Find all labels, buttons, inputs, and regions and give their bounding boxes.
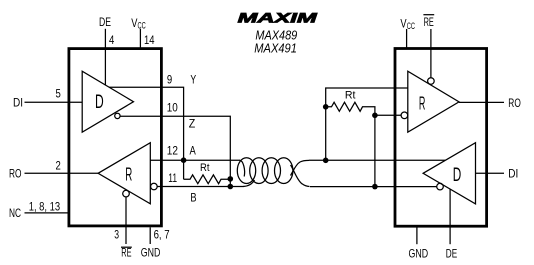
svg-text:Rt: Rt [345,90,356,102]
wire DE pin 4 [104,29,106,85]
wire GND pins 6,7 [149,227,151,244]
svg-text:RO: RO [508,96,521,110]
svg-text:6, 7: 6, 7 [154,228,170,242]
svg-text:CC: CC [407,21,416,31]
junction node A dot [181,157,187,163]
IC1 left transceiver box [69,49,161,226]
svg-text:Z: Z [189,117,196,131]
wire VCC pin 14 [139,29,141,49]
driver D2 inverting output bubble [437,183,444,190]
svg-text:5: 5 [56,86,61,100]
svg-text:DI: DI [13,95,23,109]
resistor Rt left [184,160,231,184]
svg-text:Y: Y [190,73,196,87]
resistor Rt right [326,88,408,187]
wire bottom bus right segment [310,186,437,188]
wire RE right pin [430,29,432,78]
svg-text:MAXIM: MAXIM [238,10,318,25]
wire NC pins 1,8,13 [25,212,69,214]
svg-text:CC: CC [138,20,147,30]
wire DI right input [476,172,505,174]
svg-text:1, 8, 13: 1, 8, 13 [29,199,61,213]
svg-text:R: R [419,93,426,114]
svg-text:9: 9 [167,73,172,87]
svg-text:2: 2 [56,159,61,173]
receiver R1 enable bubble [123,190,130,197]
driver D1 triangle [82,71,133,132]
svg-text:D: D [453,164,462,186]
receiver R1 triangle [98,143,150,204]
svg-text:14: 14 [144,33,155,47]
driver D1 inverting output bubble Z [115,113,120,118]
junction dot Z-Rt [228,176,234,182]
receiver R2 triangle [408,71,459,132]
wire DI input pin 5 [25,101,83,103]
svg-text:3: 3 [114,228,119,242]
svg-text:DE: DE [446,246,457,260]
wire RE pin 3 [125,197,127,244]
svg-text:MAX491: MAX491 [254,41,297,55]
wire RO right output [459,101,504,103]
svg-text:A: A [190,143,197,157]
IC2 right transceiver box [395,49,487,227]
junction dot Rt left lead [323,104,329,110]
svg-text:NC: NC [9,206,21,220]
junction dot top bus [323,158,329,164]
receiver R2 enable bubble [428,78,435,85]
svg-text:Rt: Rt [200,162,210,174]
junction dot B [228,184,234,190]
wire A pin 12 [150,159,240,161]
svg-text:DE: DE [99,15,111,29]
wire RO output pin 2 [25,172,99,174]
svg-text:12: 12 [167,143,178,157]
svg-text:D: D [95,91,104,113]
wire DE right pin [449,189,451,244]
svg-text:RE: RE [424,15,434,29]
junction dot bottom bus [372,184,378,190]
svg-text:B: B [190,191,196,205]
wire Z pin 10 [120,116,230,186]
wire GND right pin [416,226,418,244]
receiver R2 inverting input bubble [401,112,408,119]
junction dot Rt right lead [372,113,378,119]
svg-text:GND: GND [409,246,429,260]
svg-text:11: 11 [168,171,177,185]
svg-text:10: 10 [167,101,178,115]
svg-text:DI: DI [508,166,518,180]
svg-text:4: 4 [109,33,114,47]
svg-text:MAX489: MAX489 [255,28,297,42]
receiver R1 inverting input bubble B [151,183,158,190]
wire VCC right pin [406,29,408,49]
wire top bus right segment [309,159,445,161]
wire B pin 11 [157,186,243,188]
svg-text:R: R [125,164,132,185]
driver D2 triangle [423,143,475,204]
svg-text:RO: RO [9,166,22,180]
wire Y pin 9 [109,87,184,160]
twisted pair cable [237,158,309,187]
svg-text:GND: GND [141,246,161,260]
